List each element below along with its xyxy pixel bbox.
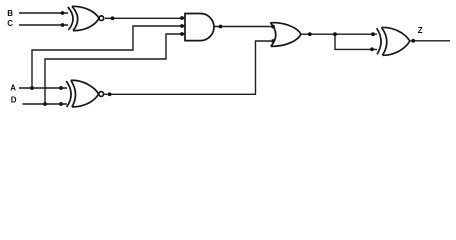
svg-text:A: A <box>10 83 16 92</box>
svg-text:Z: Z <box>418 26 423 35</box>
svg-text:B: B <box>7 9 13 18</box>
svg-text:C: C <box>7 19 13 28</box>
svg-text:D: D <box>11 95 17 104</box>
